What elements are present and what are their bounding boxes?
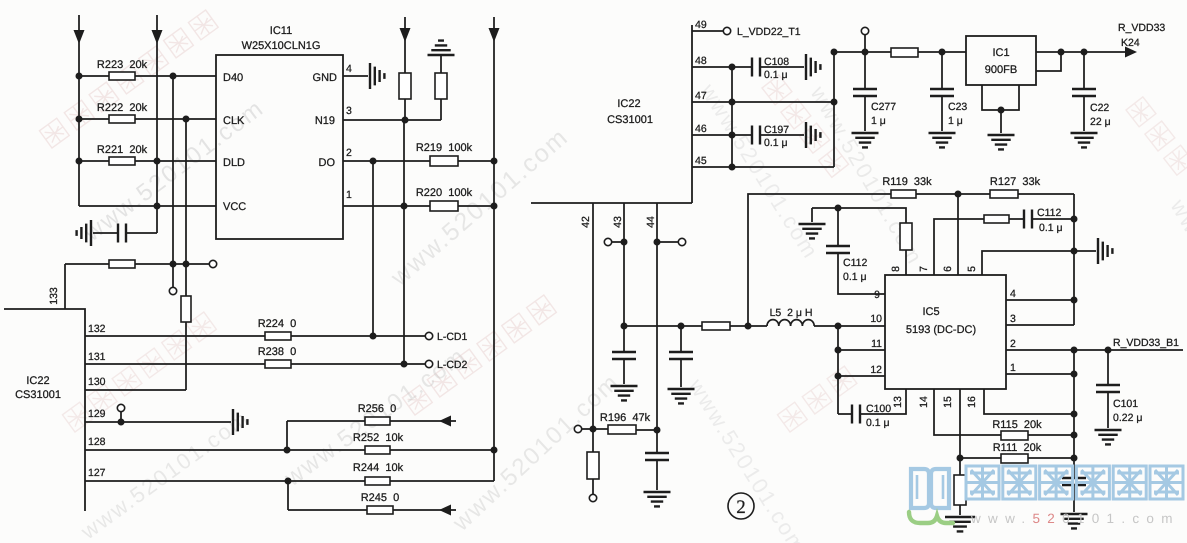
- wire N19 pin3 row: [343, 119, 441, 121]
- svg-text:R221 20k: R221 20k: [97, 144, 148, 156]
- terminal (open circle) on pin129: [117, 404, 124, 411]
- svg-text:R244 10k: R244 10k: [353, 462, 404, 474]
- wire R111 left lead: [960, 457, 1001, 459]
- wire supply rail B vertical (second feed): [156, 15, 158, 233]
- resistor (vertical at 441, unlabelled): [435, 73, 447, 99]
- junction pin46 / vertical 732: [729, 132, 736, 139]
- svg-text:22 μ: 22 μ: [1090, 116, 1111, 128]
- svg-text:CS31001: CS31001: [15, 389, 61, 401]
- resistor R238: [265, 360, 291, 368]
- svg-text:131: 131: [88, 351, 106, 363]
- svg-text:1: 1: [1010, 362, 1016, 374]
- svg-text:15: 15: [942, 396, 954, 408]
- wire snubber resistor to C112b: [1009, 218, 1024, 220]
- junction pin44 / R196: [654, 427, 661, 434]
- wire R196 right lead to pin44 riser: [636, 429, 657, 431]
- junction output / C22: [1081, 49, 1088, 56]
- resistor (vertical, unlabelled) to pin 130: [181, 296, 191, 322]
- capacitor C112 (second): [1024, 210, 1032, 229]
- capacitor C22: [1072, 89, 1096, 96]
- svg-text:R_VDD33: R_VDD33: [1118, 22, 1165, 34]
- wire vertical 834 from rail down to pin45 row: [833, 52, 835, 167]
- svg-text:14: 14: [918, 396, 930, 408]
- junction pin48 / vertical 732: [729, 64, 736, 71]
- svg-text:www.520101.com: www.520101.com: [970, 511, 1180, 526]
- wire input rail to IC1: [834, 51, 891, 53]
- svg-text:R127 33k: R127 33k: [990, 176, 1041, 188]
- junction pin43 / jumper: [621, 239, 628, 246]
- wire R245 to off-page arrow: [393, 509, 456, 511]
- junction L-CD2 row / vertical from R220: [401, 361, 408, 368]
- wire IC5 pin3 row: [1006, 324, 1074, 326]
- wire resistor to ground: [959, 505, 961, 515]
- svg-text:IC22: IC22: [617, 98, 640, 110]
- svg-text:13: 13: [892, 396, 904, 408]
- svg-text:128: 128: [88, 436, 106, 448]
- svg-text:0.1 μ: 0.1 μ: [764, 137, 788, 149]
- wire cap to ground: [623, 359, 625, 384]
- wire C277 drop: [864, 52, 866, 89]
- svg-text:DLD: DLD: [223, 157, 245, 169]
- ground (pin129, right-facing): [233, 409, 247, 435]
- ground (output net cap): [1061, 514, 1088, 528]
- junction L5 row / R119 branch: [745, 323, 752, 330]
- IC U-IC1 box (900FB regulator): [966, 36, 1036, 85]
- svg-text:127: 127: [88, 467, 106, 479]
- resistor R252: [365, 446, 390, 454]
- wire coil to IC5 pin10: [814, 325, 885, 327]
- svg-text:C101: C101: [1113, 398, 1138, 410]
- svg-text:R238 0: R238 0: [258, 346, 297, 358]
- capacitor C108: [752, 58, 760, 77]
- capacitor C101: [1096, 385, 1120, 392]
- junction 1074 / C112b: [1071, 216, 1078, 223]
- wire ground stub to vertical resistor at 441: [440, 55, 442, 73]
- svg-text:48: 48: [695, 55, 707, 67]
- svg-text:C23: C23: [948, 101, 967, 113]
- svg-text:1: 1: [346, 189, 352, 201]
- svg-text:3: 3: [1010, 313, 1016, 325]
- resistor R224: [265, 332, 291, 340]
- wire pin1 row to R220: [343, 205, 430, 207]
- terminal (open circle) left of R196: [574, 425, 581, 432]
- svg-text:11: 11: [871, 338, 882, 350]
- wire R111 to output net: [1028, 457, 1074, 459]
- junction R220 / vertical 494: [491, 203, 498, 210]
- junction 1074 / pin1: [1071, 371, 1078, 378]
- ground (pin44 cap): [644, 492, 671, 506]
- wire R244 to vertical 494: [390, 480, 494, 482]
- wire resistor bottom to N19 row: [404, 99, 406, 120]
- junction 838 / pin12: [835, 373, 842, 380]
- wire vertical 405 from N19 row down to L-CD2 row: [403, 120, 405, 364]
- wire IC5 pin6 riser to R119/R127 junction: [957, 194, 959, 275]
- svg-text:R115 20k: R115 20k: [992, 419, 1042, 431]
- wire pin49 row: [692, 30, 723, 32]
- wire IC5 pin15 riser: [959, 389, 961, 458]
- svg-text:L-CD2: L-CD2: [437, 359, 468, 371]
- resistor R244: [365, 477, 390, 485]
- svg-text:CLK: CLK: [223, 115, 245, 127]
- wire jumper row right part: [135, 263, 209, 265]
- junction pin128 / R256 branch: [284, 447, 291, 454]
- wire IC5 pin16 riser to output net: [984, 389, 1074, 414]
- svg-text:4: 4: [346, 63, 352, 75]
- junction 1074 / pin4: [1071, 297, 1078, 304]
- svg-text:46: 46: [695, 123, 707, 135]
- terminal (test point) above rail: [861, 27, 868, 34]
- wire C112a drop from node row: [837, 208, 839, 246]
- junction R223 row / vertical 173: [170, 73, 177, 80]
- wire VCC row from rail A to IC11 VCC pin: [79, 205, 216, 207]
- junction pin127 / R245 branch: [285, 478, 292, 485]
- wire cap to ground: [1073, 485, 1075, 512]
- wire R223 right to IC11 D40: [135, 75, 216, 77]
- ground (upward, second pull resistor): [428, 41, 455, 55]
- wire C23 drop: [941, 52, 943, 89]
- junction pin2 row / C101: [1105, 347, 1112, 354]
- junction R219 / vertical 494: [491, 158, 498, 165]
- wire pin127 row to R244: [85, 480, 365, 482]
- wire IC1 output row: [1036, 51, 1127, 53]
- svg-text:6: 6: [942, 266, 954, 272]
- junction rail / C23: [939, 49, 946, 56]
- wire GND pin4 row: [343, 75, 368, 77]
- arrow (off-page, R245): [439, 505, 451, 516]
- wire resistor bottom to N19 row: [440, 99, 442, 120]
- svg-text:C22: C22: [1090, 102, 1109, 114]
- wire IC5 pin12 row: [838, 375, 885, 377]
- wire L5 row from pin43 to filter resistor: [624, 325, 702, 327]
- wire IC5 pin1 row: [1006, 373, 1074, 375]
- svg-text:900FB: 900FB: [985, 64, 1017, 76]
- ground (pin8 node): [799, 224, 826, 238]
- capacitor C112 (first): [826, 246, 850, 253]
- capacitor (pin44, unlabelled): [645, 453, 669, 460]
- IC block IC22 (right, partial outline): [531, 25, 692, 203]
- wire vertical 1074 lower (output net): [1073, 350, 1075, 478]
- capacitor C100: [852, 405, 860, 424]
- svg-text:K24: K24: [1121, 37, 1140, 49]
- supply arrow B: [152, 30, 163, 44]
- junction rail B / DLD row: [154, 158, 161, 165]
- svg-text:0.1 μ: 0.1 μ: [764, 69, 788, 81]
- junction pin2 row / vertical 1074: [1071, 347, 1078, 354]
- svg-text:L-CD1: L-CD1: [437, 331, 468, 343]
- wire jumper stub from pin44: [657, 241, 678, 243]
- svg-text:D40: D40: [223, 72, 243, 84]
- junction DO row / vertical 373: [370, 158, 377, 165]
- svg-text:R111 20k: R111 20k: [993, 442, 1042, 454]
- wire C101 to ground: [1107, 392, 1109, 428]
- capacitor C277: [853, 89, 877, 96]
- wire from vertical resistor down to pin130 row: [185, 322, 187, 390]
- wire terminal stub to rail: [864, 35, 866, 52]
- svg-text:GND: GND: [313, 72, 338, 84]
- resistor R223: [109, 72, 135, 80]
- svg-text:49: 49: [695, 19, 707, 31]
- resistor R111: [1001, 454, 1028, 463]
- junction pin42 / R196: [590, 426, 597, 433]
- resistor R256: [365, 417, 390, 425]
- wire vertical from R222 row down to jumper row: [185, 119, 187, 296]
- svg-text:44: 44: [645, 216, 657, 228]
- svg-text:129: 129: [88, 408, 106, 420]
- wire cap at 681 below L5 row: [680, 326, 682, 352]
- resistor (vertical below R196, unlabelled): [587, 452, 599, 479]
- wire pin128 row to R252: [85, 449, 365, 451]
- wire C23 to ground: [941, 96, 943, 131]
- wire terminal stub down to pin129 row: [120, 412, 122, 422]
- svg-text:10: 10: [870, 313, 882, 325]
- svg-text:2: 2: [346, 147, 352, 159]
- junction L5 row / cap: [678, 323, 685, 330]
- wire from rail B down to decoupling capacitor: [127, 232, 157, 234]
- svg-text:5193 (DC-DC): 5193 (DC-DC): [906, 324, 976, 336]
- svg-text:IC5: IC5: [922, 306, 939, 318]
- junction rail A / R221: [76, 158, 83, 165]
- ground (pin43 filter): [611, 386, 638, 400]
- svg-text:7: 7: [918, 266, 930, 272]
- junction vertical 186 / jumper row: [183, 261, 190, 268]
- junction output / feedback: [1058, 49, 1065, 56]
- capacitor C197: [752, 126, 760, 145]
- svg-text:3: 3: [346, 105, 352, 117]
- wire pin43 riser down to L5 row: [623, 203, 625, 326]
- IC U-IC11 box: [216, 55, 343, 239]
- junction IC1 tab center: [998, 107, 1005, 114]
- ground (pin5 row, right-facing): [1098, 238, 1112, 264]
- wire R256 branch up from pin128 row: [286, 421, 288, 450]
- wire vertical 373 from DO row down to L-CD1 row: [372, 161, 374, 336]
- junction pin47 / vertical 732: [729, 99, 736, 106]
- junction pin47 / vertical 834: [831, 99, 838, 106]
- wire long vertical 494 (right bus of left half): [493, 17, 495, 481]
- wire resistor to terminal: [592, 479, 594, 494]
- wire vertical 838 from L5 node down to C100 row: [837, 326, 839, 414]
- svg-text:R223 20k: R223 20k: [97, 59, 148, 71]
- wire vertical 1074 upper (ground net): [1073, 194, 1075, 325]
- wire pin131 row to R238: [85, 363, 265, 365]
- wire C108 to ground: [760, 66, 804, 68]
- wire R252 to vertical 494: [390, 449, 494, 451]
- wire pin 133 drop to IC22 block: [64, 264, 66, 309]
- wire C101 drop from pin2 row: [1107, 350, 1109, 385]
- ground (L5 row filter): [668, 389, 695, 403]
- resistor (L5 row series, unlabelled): [702, 322, 730, 330]
- svg-text:47: 47: [695, 90, 707, 102]
- wire IC5 pin2 row (R_VDD33_B1): [1006, 349, 1183, 351]
- svg-text:R256 0: R256 0: [358, 403, 397, 415]
- capacitor C23: [930, 89, 954, 96]
- terminal L-CD1: [425, 332, 432, 339]
- svg-text:R222 20k: R222 20k: [97, 102, 148, 114]
- resistor R221: [109, 157, 135, 165]
- wire C197 to ground: [760, 134, 804, 136]
- wire supply drop to vertical resistor at 405: [404, 17, 406, 73]
- wire C22 to ground: [1083, 96, 1085, 131]
- resistor R219: [430, 156, 458, 166]
- wire resistor to IC5 pin8: [905, 250, 907, 275]
- svg-text:2: 2: [1010, 338, 1016, 350]
- junction rail / C277: [862, 49, 869, 56]
- ground (pin15 divider): [945, 517, 975, 531]
- svg-text:L_VDD22_T1: L_VDD22_T1: [737, 26, 801, 38]
- wire IC1 tab to ground: [1000, 110, 1002, 133]
- wire IC5 pin5 riser to ground row: [982, 251, 1096, 275]
- terminal L-CD2: [425, 360, 432, 367]
- junction R119/R127/pin6: [955, 191, 962, 198]
- svg-text:133: 133: [48, 287, 60, 305]
- capacitor (output net, unlabelled): [1062, 478, 1086, 485]
- wire IC5 pin11 row: [838, 349, 885, 351]
- svg-text:130: 130: [88, 376, 106, 388]
- capacitor (L5 row filter, unlabelled): [669, 352, 693, 359]
- resistor (snubber, unlabelled): [984, 215, 1009, 223]
- svg-text:2: 2: [736, 497, 746, 518]
- supply arrow A: [74, 30, 85, 44]
- wire pin130 row to IC22 left block: [85, 389, 186, 391]
- wire IC5 pin7 riser to snubber row: [934, 219, 984, 275]
- wire terminal to R196 node: [582, 428, 593, 430]
- svg-text:45: 45: [695, 155, 707, 167]
- ground (IC1 tab): [988, 135, 1015, 149]
- svg-text:R219 100k: R219 100k: [416, 142, 473, 154]
- wire R219 to vertical 494: [458, 160, 494, 162]
- wire C112a to IC5 pin9: [838, 253, 885, 294]
- svg-text:CS31001: CS31001: [607, 114, 653, 126]
- wire pin46 row to C197: [692, 134, 752, 136]
- wire branch from L5 node up to R119: [748, 194, 891, 326]
- wire pin132 row to R224: [85, 335, 265, 337]
- wire IC5 pin14 riser to R115: [934, 389, 1001, 435]
- wire IC5 pin4 row: [1006, 299, 1074, 301]
- logo green swoosh: [909, 512, 953, 523]
- wire R256 row: [287, 420, 365, 422]
- wire pin48 row to C108: [692, 66, 752, 68]
- IC1 ground tab: [982, 85, 1019, 110]
- ground (C22): [1071, 133, 1098, 147]
- resistor (vertical, N19 pull, unlabelled): [399, 73, 411, 99]
- resistor R220: [430, 201, 458, 211]
- wire cap to ground: [680, 359, 682, 387]
- svg-text:R252 10k: R252 10k: [353, 432, 404, 444]
- supply arrow (bus 494): [489, 28, 500, 42]
- wire R196 left lead: [593, 428, 608, 430]
- svg-text:R119 33k: R119 33k: [882, 176, 932, 188]
- ground (IC11 pin4, right-facing): [370, 63, 384, 89]
- svg-text:C277: C277: [871, 101, 896, 113]
- svg-text:12: 12: [870, 364, 882, 376]
- resistor (vertical below pin15, unlabelled): [954, 475, 966, 505]
- wire C277 to ground: [864, 96, 866, 131]
- svg-text:4: 4: [1010, 288, 1016, 300]
- wire R221 right to IC11 DLD: [135, 160, 216, 162]
- resistor R245: [367, 506, 393, 514]
- ground (C108, right-facing): [806, 54, 820, 80]
- wire IC1 feedback row: [1036, 52, 1061, 71]
- wire R220 to vertical 494: [458, 205, 494, 207]
- junction 1074 / R115: [1071, 432, 1078, 439]
- wire jumper stub to pin43: [612, 241, 624, 243]
- svg-text:R224 0: R224 0: [258, 318, 297, 330]
- resistor R119: [891, 190, 916, 198]
- junction R252 / vertical 494: [491, 447, 498, 454]
- wire pin47 row: [692, 101, 834, 103]
- arrow R_VDD33 output: [1125, 47, 1137, 58]
- wire pin129 row to ground: [85, 421, 231, 423]
- wire C100 to pin13 riser: [860, 389, 906, 414]
- resistor R127: [990, 190, 1018, 198]
- wire pin45 row: [692, 166, 834, 168]
- resistor (vertical to pin8, unlabelled): [900, 223, 912, 250]
- junction L5 row / vertical 838: [835, 323, 842, 330]
- IC U-IC5 box (5193 DC-DC): [885, 275, 1006, 389]
- wire C100 row from vertical 838 to IC5 pin13: [838, 413, 852, 415]
- wire R127 to vertical 1074: [1018, 193, 1074, 195]
- junction L-CD1 row / vertical from R219: [370, 333, 377, 340]
- wire jumper row (pin 133 net): [65, 263, 109, 265]
- svg-text:W25X10CLN1G: W25X10CLN1G: [242, 40, 321, 52]
- wire pin44 riser down to R196 right node: [656, 203, 658, 430]
- sheet number circled 2: [728, 493, 754, 519]
- ground (C101): [1095, 430, 1122, 444]
- capacitor (VCC decoupling, unlabelled): [118, 224, 126, 243]
- supply arrow (N19 pull resistor): [400, 28, 411, 42]
- wire cap to ground: [656, 460, 658, 490]
- svg-text:8: 8: [890, 266, 902, 272]
- junction pin44 / jumper: [654, 239, 661, 246]
- wire R119 to junction above pin6: [916, 193, 990, 195]
- svg-text:1 μ: 1 μ: [871, 115, 886, 127]
- resistor R222: [109, 115, 135, 123]
- svg-text:0.1 μ: 0.1 μ: [1039, 222, 1063, 234]
- svg-text:L5 2 μ H: L5 2 μ H: [770, 307, 813, 319]
- terminal (open circle) jumper at pin43: [604, 238, 611, 245]
- terminal (open circle) below jumper row: [169, 287, 176, 294]
- resistor (jumper row, unlabelled): [109, 260, 135, 268]
- junction rail A / R223: [76, 73, 83, 80]
- wire R256 to off-page arrow: [390, 420, 456, 422]
- logo book icon (watermark brand): [911, 469, 949, 508]
- junction vertical 405 / R220 row: [401, 203, 408, 210]
- ground (C197, right-facing): [806, 122, 820, 148]
- inductor L5: [767, 320, 814, 326]
- junction vertical 173 / jumper row: [170, 261, 177, 268]
- wire L5 row resistor to coil: [730, 325, 767, 327]
- junction rail B / VCC row: [154, 203, 161, 210]
- svg-text:0.1 μ: 0.1 μ: [843, 271, 867, 283]
- wire C22 drop: [1083, 52, 1085, 89]
- svg-text:DO: DO: [319, 157, 336, 169]
- capacitor (pin43 filter, unlabelled): [612, 352, 636, 359]
- junction 838 / pin11: [835, 347, 842, 354]
- svg-text:1 μ: 1 μ: [948, 115, 963, 127]
- wire DO pin2 row to R219: [343, 160, 430, 162]
- svg-text:R220 100k: R220 100k: [416, 187, 473, 199]
- svg-text:IC22: IC22: [26, 375, 49, 387]
- junction rail / vertical 834: [831, 49, 838, 56]
- resistor R115: [1001, 431, 1028, 440]
- resistor (rail series, unlabelled): [891, 48, 918, 57]
- resistor R196: [608, 425, 636, 434]
- svg-text:16: 16: [966, 396, 978, 408]
- wire capacitor to ground: [93, 232, 118, 234]
- wire R223 left: [79, 75, 109, 77]
- wire R245 row: [288, 509, 367, 511]
- wire R245 branch down from pin127 row: [287, 481, 289, 510]
- svg-text:0.1 μ: 0.1 μ: [866, 417, 890, 429]
